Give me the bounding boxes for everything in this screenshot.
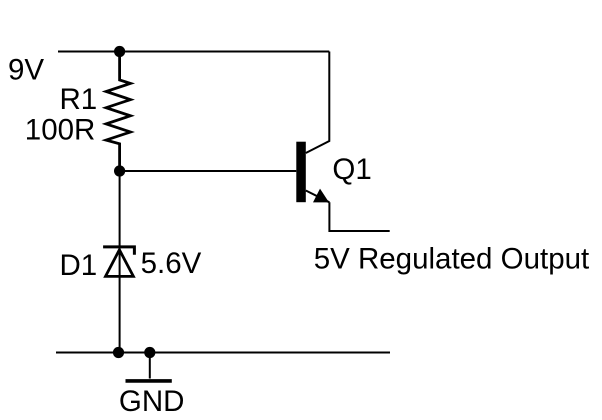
wire ground rail — [56, 352, 390, 354]
svg-text:GND: GND — [119, 385, 185, 418]
zener diode D1 triangle — [106, 250, 134, 277]
node junction top rail to R1 — [114, 46, 125, 57]
wire 9V top rail — [58, 51, 329, 53]
node junction ground symbol to ground rail — [144, 347, 155, 358]
svg-text:9V: 9V — [8, 54, 44, 87]
wire ground stub — [149, 353, 151, 379]
resistor R1 — [106, 52, 130, 172]
ground bar — [126, 379, 172, 383]
svg-text:Q1: Q1 — [332, 153, 371, 186]
svg-text:R1: R1 — [60, 83, 98, 116]
node junction R1 D1 base — [114, 165, 125, 176]
transistor Q1 emitter arrow — [313, 189, 329, 203]
wire collector from rail to Q1 — [306, 52, 330, 154]
svg-text:D1: D1 — [60, 249, 98, 282]
wire base node to Q1 — [120, 170, 297, 172]
zener diode D1 cathode bar — [103, 247, 134, 255]
wire node down through D1 to ground rail — [119, 171, 121, 353]
wire emitter to output — [329, 202, 389, 231]
svg-text:100R: 100R — [25, 113, 96, 146]
svg-text:5.6V: 5.6V — [141, 247, 202, 280]
transistor Q1 base bar — [296, 142, 306, 203]
node junction D1 to ground rail — [113, 347, 124, 358]
transistor Q1 emitter line — [306, 191, 330, 203]
svg-text:5V Regulated Output: 5V Regulated Output — [314, 243, 590, 276]
